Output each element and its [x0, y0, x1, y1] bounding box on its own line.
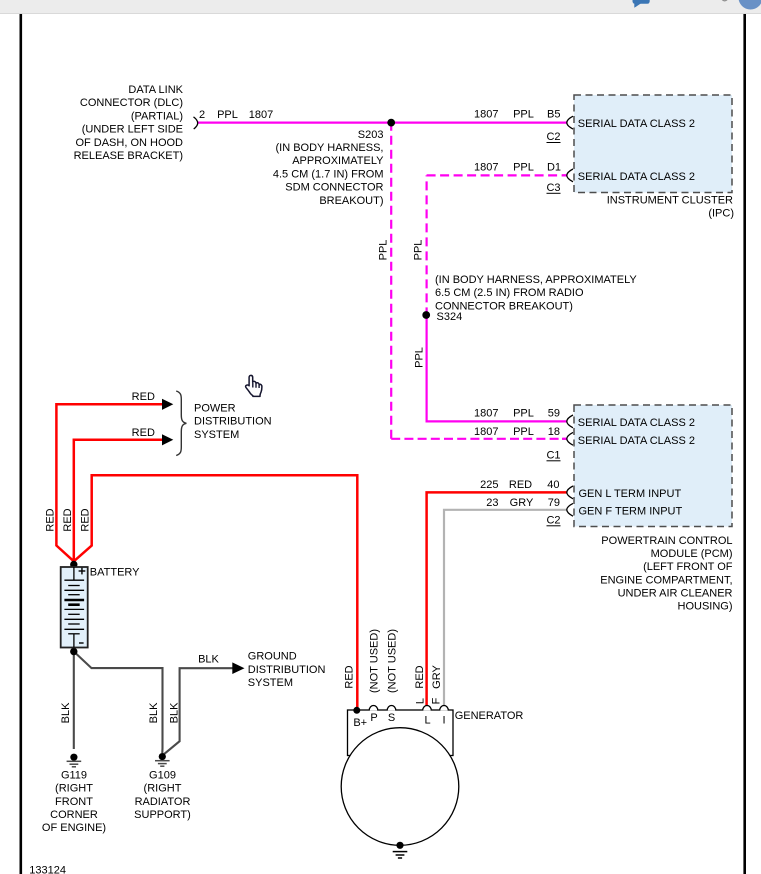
svg-text:BATTERY: BATTERY	[90, 567, 140, 579]
svg-text:GRY: GRY	[510, 497, 534, 509]
svg-text:40: 40	[547, 479, 559, 491]
svg-text:BLK: BLK	[60, 702, 72, 723]
svg-text:PPL: PPL	[217, 109, 238, 121]
svg-text:PPL: PPL	[513, 408, 534, 420]
svg-text:2: 2	[199, 109, 205, 121]
svg-text:RELEASE BRACKET): RELEASE BRACKET)	[74, 150, 183, 162]
svg-text:I: I	[442, 715, 445, 727]
svg-text:C1: C1	[546, 449, 560, 461]
svg-text:C2: C2	[546, 131, 560, 143]
svg-text:SERIAL DATA CLASS 2: SERIAL DATA CLASS 2	[578, 417, 695, 429]
svg-text:133124: 133124	[29, 865, 66, 874]
svg-text:PPL: PPL	[513, 426, 534, 438]
svg-text:DISTRIBUTION: DISTRIBUTION	[248, 664, 326, 676]
svg-text:SERIAL DATA CLASS 2: SERIAL DATA CLASS 2	[578, 171, 695, 183]
svg-text:GEN F TERM INPUT: GEN F TERM INPUT	[579, 505, 683, 517]
svg-text:23: 23	[486, 497, 498, 509]
svg-text:(IN BODY HARNESS, APPROXIMATEL: (IN BODY HARNESS, APPROXIMATELY	[435, 274, 637, 286]
svg-text:4.5 CM (1.7 IN) FROM: 4.5 CM (1.7 IN) FROM	[273, 168, 384, 180]
svg-text:1807: 1807	[474, 426, 498, 438]
svg-text:GEN L TERM INPUT: GEN L TERM INPUT	[579, 488, 682, 500]
svg-text:RED: RED	[414, 665, 426, 688]
svg-text:1807: 1807	[474, 109, 498, 121]
svg-text:BREAKOUT): BREAKOUT)	[319, 195, 383, 207]
svg-text:SERIAL DATA CLASS 2: SERIAL DATA CLASS 2	[578, 118, 695, 130]
svg-text:P: P	[370, 712, 377, 724]
svg-text:L: L	[415, 698, 427, 704]
svg-text:OF DASH, ON HOOD: OF DASH, ON HOOD	[75, 137, 183, 149]
svg-text:B+: B+	[353, 717, 367, 729]
svg-text:C2: C2	[546, 514, 560, 526]
svg-text:RED: RED	[45, 508, 57, 531]
svg-text:1807: 1807	[474, 161, 498, 173]
svg-text:(IPC): (IPC)	[708, 208, 734, 220]
svg-text:GRY: GRY	[431, 665, 443, 689]
svg-text:SDM CONNECTOR: SDM CONNECTOR	[285, 182, 383, 194]
svg-text:GROUND: GROUND	[248, 651, 297, 663]
svg-text:MODULE (PCM): MODULE (PCM)	[651, 548, 733, 560]
svg-text:B5: B5	[547, 109, 560, 121]
svg-text:DISTRIBUTION: DISTRIBUTION	[194, 416, 272, 428]
svg-text:RED: RED	[80, 508, 92, 531]
svg-text:1807: 1807	[474, 408, 498, 420]
svg-text:225: 225	[480, 479, 498, 491]
svg-text:RED: RED	[132, 391, 155, 403]
svg-text:SERIAL DATA CLASS 2: SERIAL DATA CLASS 2	[578, 435, 695, 447]
svg-text:(NOT USED): (NOT USED)	[369, 629, 381, 693]
svg-text:D1: D1	[547, 161, 561, 173]
svg-text:RADIATOR: RADIATOR	[135, 796, 191, 808]
svg-text:(PARTIAL): (PARTIAL)	[131, 110, 183, 122]
svg-text:DATA LINK: DATA LINK	[128, 84, 183, 96]
svg-text:PPL: PPL	[513, 161, 534, 173]
svg-text:SYSTEM: SYSTEM	[248, 677, 293, 689]
svg-text:G109: G109	[149, 770, 176, 782]
svg-text:FRONT: FRONT	[55, 796, 93, 808]
svg-text:PPL: PPL	[413, 240, 425, 261]
svg-text:(NOT USED): (NOT USED)	[387, 629, 399, 693]
svg-text:59: 59	[548, 408, 560, 420]
svg-text:(UNDER LEFT SIDE: (UNDER LEFT SIDE	[82, 124, 183, 136]
svg-text:18: 18	[548, 426, 560, 438]
svg-text:INSTRUMENT CLUSTER: INSTRUMENT CLUSTER	[607, 195, 733, 207]
svg-text:PPL: PPL	[414, 347, 426, 368]
svg-text:SYSTEM: SYSTEM	[194, 429, 239, 441]
svg-text:PPL: PPL	[378, 240, 390, 261]
svg-text:6.5 CM (2.5 IN) FROM RADIO: 6.5 CM (2.5 IN) FROM RADIO	[435, 287, 584, 299]
svg-text:OF ENGINE): OF ENGINE)	[42, 822, 106, 834]
svg-text:F: F	[431, 697, 443, 704]
svg-text:CONNECTOR (DLC): CONNECTOR (DLC)	[80, 97, 183, 109]
svg-text:CORNER: CORNER	[50, 809, 98, 821]
svg-text:PPL: PPL	[513, 109, 534, 121]
svg-text:BLK: BLK	[169, 702, 181, 723]
svg-text:(IN BODY HARNESS,: (IN BODY HARNESS,	[276, 142, 384, 154]
svg-text:(RIGHT: (RIGHT	[55, 783, 93, 795]
svg-text:RED: RED	[62, 508, 74, 531]
svg-text:S203: S203	[358, 129, 384, 141]
svg-text:G119: G119	[61, 770, 87, 782]
svg-text:(RIGHT: (RIGHT	[144, 783, 182, 795]
svg-text:POWER: POWER	[194, 403, 236, 415]
svg-text:UNDER AIR CLEANER: UNDER AIR CLEANER	[618, 587, 733, 599]
svg-text:RED: RED	[344, 665, 356, 688]
svg-text:ENGINE COMPARTMENT,: ENGINE COMPARTMENT,	[600, 574, 732, 586]
svg-text:(LEFT FRONT OF: (LEFT FRONT OF	[643, 561, 733, 573]
svg-text:GENERATOR: GENERATOR	[455, 710, 524, 722]
svg-text:L: L	[424, 715, 430, 727]
svg-text:C3: C3	[546, 182, 560, 194]
svg-text:POWERTRAIN CONTROL: POWERTRAIN CONTROL	[601, 535, 732, 547]
svg-text:BLK: BLK	[148, 702, 160, 723]
svg-text:RED: RED	[509, 479, 532, 491]
svg-text:79: 79	[548, 497, 560, 509]
svg-text:SUPPORT): SUPPORT)	[134, 809, 191, 821]
svg-text:S324: S324	[437, 311, 463, 323]
svg-text:1807: 1807	[249, 109, 273, 121]
svg-text:S: S	[388, 712, 395, 724]
svg-text:RED: RED	[132, 427, 155, 439]
svg-text:APPROXIMATELY: APPROXIMATELY	[292, 155, 384, 167]
svg-text:HOUSING): HOUSING)	[678, 601, 733, 613]
svg-text:BLK: BLK	[198, 654, 219, 666]
